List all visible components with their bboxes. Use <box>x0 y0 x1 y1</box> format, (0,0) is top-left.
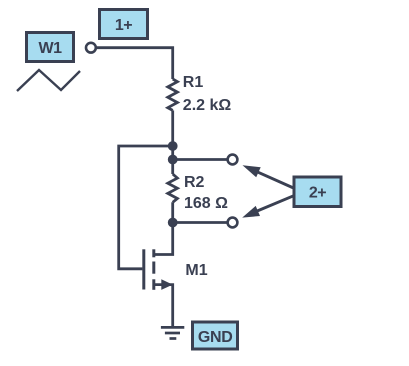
wire R1 bottom to R2 top <box>171 110 174 174</box>
svg-text:W1: W1 <box>39 40 63 57</box>
node C junction dot <box>168 218 178 228</box>
svg-text:168 Ω: 168 Ω <box>184 195 228 212</box>
label box GND <box>193 322 238 349</box>
terminal circle W1 <box>86 43 96 53</box>
svg-text:GND: GND <box>198 329 233 346</box>
wire node A to gate (left branch) <box>119 146 173 269</box>
M1 gate bar <box>142 249 145 289</box>
resistor R1 <box>168 79 178 110</box>
resistor R2 <box>168 174 178 202</box>
M1 source arrow <box>161 279 172 290</box>
arrow 2+ to bottom probe <box>242 196 293 218</box>
svg-text:1+: 1+ <box>115 17 132 34</box>
wire top: W1 terminal to R1 top <box>96 48 173 79</box>
svg-text:R2: R2 <box>184 174 205 191</box>
arrow 2+ to top probe <box>243 165 294 188</box>
svg-text:M1: M1 <box>185 262 207 279</box>
label box 1+ <box>100 10 148 39</box>
wire R2 bottom to M1 drain <box>155 202 173 254</box>
label box W1 <box>27 33 74 62</box>
terminal circle 2+ bottom <box>228 218 238 228</box>
triangle wave symbol W1 <box>17 70 80 91</box>
wire M1 source to ground <box>154 285 173 326</box>
node A junction dot <box>168 141 178 151</box>
svg-text:R1: R1 <box>183 74 204 91</box>
wire node B to scope probe 2+ top <box>173 158 229 161</box>
transistor M1 <box>144 249 154 289</box>
node B junction dot <box>168 155 178 165</box>
svg-text:2.2 kΩ: 2.2 kΩ <box>183 97 232 114</box>
svg-text:2+: 2+ <box>309 185 326 202</box>
terminal circle 2+ top <box>228 155 238 165</box>
M1 channel segments <box>152 249 155 257</box>
ground <box>161 327 184 338</box>
label box 2+ <box>294 177 341 207</box>
wire node C to scope probe 2+ bottom <box>173 221 229 224</box>
